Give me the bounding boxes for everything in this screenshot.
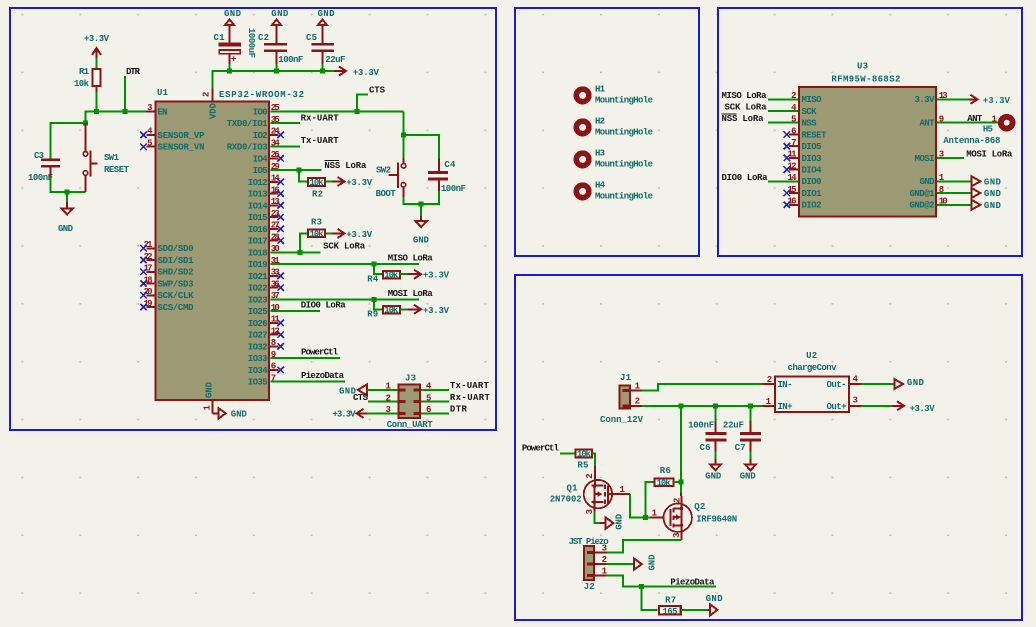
svg-text:MISO LoRa: MISO LoRa (722, 91, 768, 101)
svg-text:C1: C1 (214, 33, 226, 43)
svg-text:J1: J1 (620, 373, 632, 383)
svg-text:J2: J2 (584, 582, 595, 592)
wire C5 stub (321, 64, 323, 71)
junction (297, 250, 302, 255)
svg-text:GND: GND (318, 9, 336, 19)
IC U1 ESP32-WROOM-32 (155, 88, 304, 400)
junction (639, 584, 644, 589)
svg-text:22uF: 22uF (325, 55, 345, 65)
svg-text:4: 4 (853, 374, 859, 384)
svg-text:chargeConv: chargeConv (788, 363, 838, 373)
svg-text:IO4: IO4 (253, 154, 269, 164)
resistor R9 (367, 306, 400, 320)
ground GND below C7 (740, 452, 757, 482)
svg-text:MOSI LoRa: MOSI LoRa (966, 149, 1013, 159)
ground GND above C5 (318, 9, 336, 43)
ground GND at U3 pin10 (937, 200, 1001, 211)
svg-text:SCS/CMD: SCS/CMD (158, 303, 195, 313)
svg-text:RXD0/IO3: RXD0/IO3 (227, 143, 268, 153)
svg-text:+: + (231, 55, 236, 65)
svg-text:GND: GND (984, 201, 1002, 211)
junction (65, 190, 70, 195)
svg-text:1000uF: 1000uF (246, 28, 256, 58)
svg-text:ESP32-WROOM-32: ESP32-WROOM-32 (219, 90, 304, 100)
svg-text:1: 1 (620, 485, 626, 495)
U1 left no-connect pins (147, 135, 155, 307)
U1 right no-connect pins (270, 135, 278, 370)
capacitor C4 (428, 159, 466, 194)
resistor R6 (655, 466, 674, 489)
wire PowerCtl to R5 (560, 453, 575, 455)
junction (320, 69, 325, 74)
svg-text:100nF: 100nF (688, 421, 714, 431)
svg-text:PowerCtl: PowerCtl (522, 444, 560, 454)
svg-text:GND: GND (224, 9, 242, 19)
svg-text:IO0: IO0 (253, 107, 268, 117)
wire J3 pin6 DTR (421, 412, 449, 414)
svg-text:10k: 10k (577, 450, 592, 460)
svg-text:IO12: IO12 (248, 178, 268, 188)
U1 pin 1 GND (203, 401, 226, 418)
svg-text:IRF9640N: IRF9640N (696, 514, 737, 524)
svg-text:GND: GND (413, 236, 430, 246)
svg-text:C6: C6 (700, 443, 711, 453)
svg-text:PiezoData: PiezoData (301, 371, 345, 381)
resistor R2 (308, 178, 325, 199)
svg-text:H1: H1 (595, 84, 606, 94)
junction (748, 403, 753, 408)
junction (713, 403, 718, 408)
svg-text:GND: GND (706, 594, 724, 604)
svg-text:10k: 10k (384, 271, 399, 281)
svg-text:EN: EN (158, 107, 168, 117)
svg-text:RFM95W-868S2: RFM95W-868S2 (831, 75, 900, 85)
svg-text:DTR: DTR (450, 405, 468, 415)
wire Q1 drain to Q2 gate node (630, 494, 650, 517)
wire node up to R6 (646, 482, 654, 517)
wire to C3 (50, 123, 85, 159)
wire DTR (124, 76, 126, 111)
svg-text:2: 2 (602, 555, 607, 565)
svg-text:2: 2 (767, 375, 772, 385)
wire RXD0/IO3 (270, 146, 300, 148)
svg-text:1: 1 (766, 397, 772, 407)
wire J1 pin2 rail to U2 IN+ (642, 405, 763, 407)
wire to R4 (374, 264, 382, 274)
power +3.3V rail arrow (334, 67, 379, 79)
mounting hole H3 (576, 148, 653, 169)
svg-text:IO21: IO21 (248, 272, 269, 282)
svg-text:+3.3V: +3.3V (983, 96, 1011, 106)
svg-text:+3.3V: +3.3V (84, 34, 110, 44)
svg-text:MISO LoRa: MISO LoRa (388, 254, 434, 264)
svg-text:IN-: IN- (778, 380, 793, 390)
wire C1 stub (229, 64, 231, 71)
svg-text:GND@2: GND@2 (910, 201, 935, 211)
sheet border bottom box (515, 275, 1022, 620)
junction (83, 121, 88, 126)
sheet border right box (718, 8, 1022, 256)
wire EN net (97, 110, 147, 112)
ground GND below C6 (705, 452, 722, 482)
U1 pin 2 VDD (202, 89, 213, 101)
capacitor C3 (28, 151, 60, 183)
capacitor C7 (723, 406, 761, 453)
svg-text:2N7002: 2N7002 (550, 494, 582, 504)
wire SW2 top (403, 135, 405, 160)
junction (94, 109, 99, 114)
svg-text:MountingHole: MountingHole (595, 160, 653, 170)
wire IO25 DIO0 (270, 310, 320, 312)
svg-text:Out+: Out+ (827, 402, 847, 412)
svg-text:H2: H2 (595, 116, 605, 126)
svg-text:SHD/SD2: SHD/SD2 (158, 268, 194, 278)
svg-text:SDI/SD1: SDI/SD1 (158, 256, 195, 266)
svg-text:Out-: Out- (827, 380, 847, 390)
wire J3 pin2 CTS (368, 401, 398, 403)
junction (401, 132, 406, 137)
wire to C3/SW1 branch (86, 111, 97, 123)
svg-text:+3.3V: +3.3V (346, 230, 373, 240)
svg-text:R9: R9 (367, 310, 378, 320)
svg-text:SCK LoRa: SCK LoRa (725, 103, 768, 113)
wire TXD0/IO1 (270, 122, 300, 124)
svg-text:SENSOR_VN: SENSOR_VN (158, 143, 205, 153)
svg-text:R7: R7 (665, 596, 676, 606)
svg-text:IO35: IO35 (248, 378, 268, 388)
ground GND below SW2 (413, 204, 430, 246)
wire to R3 (300, 233, 307, 252)
svg-text:DIO5: DIO5 (802, 142, 822, 152)
wire J3 pin1 (367, 389, 397, 391)
svg-text:GND: GND (615, 513, 625, 530)
svg-text:IO18: IO18 (248, 248, 268, 258)
svg-text:IN+: IN+ (778, 402, 793, 412)
resistor R5 (576, 450, 593, 471)
wire J1 pin1 to U2 IN- (642, 384, 763, 391)
svg-text:C2: C2 (258, 33, 269, 43)
wire IO0 down to SW2/C4 (404, 111, 440, 160)
svg-text:+3.3V: +3.3V (346, 178, 373, 188)
svg-text:MOSI: MOSI (915, 154, 935, 164)
svg-text:R6: R6 (660, 466, 671, 476)
wire IO23 MOSI (270, 298, 419, 300)
svg-text:DIO0 LoRa: DIO0 LoRa (301, 300, 347, 310)
wire C3 bottom (50, 177, 85, 192)
power +3.3V at J3 pin3 (333, 409, 369, 420)
svg-text:MountingHole: MountingHole (595, 128, 653, 138)
svg-text:H4: H4 (595, 180, 606, 190)
svg-text:+3.3V: +3.3V (910, 404, 936, 414)
power +3.3V at R2 (325, 177, 372, 188)
svg-text:MountingHole: MountingHole (595, 96, 653, 106)
label NSS LoRa (722, 114, 765, 124)
junction (274, 69, 279, 74)
svg-text:C5: C5 (306, 33, 317, 43)
wire IO18 SCK (270, 251, 320, 253)
svg-text:TXD0/IO1: TXD0/IO1 (227, 119, 269, 129)
svg-text:H5: H5 (983, 124, 993, 134)
svg-text:IO25: IO25 (248, 307, 268, 317)
sheet border left box (10, 8, 496, 430)
svg-text:DIO3: DIO3 (802, 154, 822, 164)
svg-text:3: 3 (853, 396, 858, 406)
junction (643, 515, 648, 520)
svg-text:GND: GND (984, 178, 1002, 188)
svg-text:R1: R1 (79, 67, 90, 77)
wire +12V rail down to Q2 (680, 406, 682, 494)
svg-text:GND: GND (705, 472, 722, 482)
no-connect X marks U1 left (140, 132, 146, 311)
U1 left pin numbers (144, 103, 154, 309)
svg-text:R3: R3 (311, 217, 322, 227)
wire SCK (768, 110, 798, 112)
svg-text:DIO0: DIO0 (802, 177, 822, 187)
junction (123, 109, 128, 114)
wire J2 pin1 PiezoData (607, 576, 717, 587)
svg-text:IO2: IO2 (253, 131, 268, 141)
svg-text:Rx-UART: Rx-UART (301, 114, 340, 124)
power +3.3V at U2 Out+ (862, 401, 935, 414)
mounting hole H5 antenna (943, 115, 1012, 146)
svg-text:3: 3 (672, 532, 682, 537)
svg-text:IO14: IO14 (248, 201, 269, 211)
wire J3 pin4 (421, 389, 449, 391)
wire SW2/C4 bottom (403, 191, 439, 204)
wire IO19 MISO (270, 263, 419, 265)
resistor R4 (367, 271, 400, 285)
svg-text:10k: 10k (657, 478, 672, 488)
resistor R1 (74, 58, 101, 93)
svg-text:165: 165 (663, 607, 678, 617)
wire Q2 drain to J2 pin3 (607, 540, 682, 553)
power +3.3V top-left (84, 34, 110, 60)
svg-text:SENSOR_VP: SENSOR_VP (158, 131, 206, 141)
svg-text:1: 1 (652, 509, 658, 519)
junction (296, 168, 301, 173)
svg-text:100nF: 100nF (278, 55, 303, 65)
svg-text:100nF: 100nF (28, 173, 53, 183)
svg-text:GND: GND (271, 9, 289, 19)
wire J3 pin3 (367, 412, 397, 414)
svg-text:Q2: Q2 (694, 502, 705, 512)
svg-text:10k: 10k (384, 306, 399, 316)
mounting hole H4 (576, 180, 653, 201)
resistor R7 (659, 596, 681, 617)
svg-text:10k: 10k (310, 229, 325, 239)
svg-text:PiezoData: PiezoData (670, 577, 715, 587)
svg-text:PowerCtl: PowerCtl (301, 348, 339, 358)
U3 left pin numbers (788, 91, 798, 207)
mounting hole H2 (576, 116, 653, 137)
wire NSS (768, 122, 798, 124)
svg-text:NSS: NSS (802, 119, 818, 129)
ground GND above C1 (224, 9, 242, 43)
svg-text:MOSI LoRa: MOSI LoRa (388, 289, 434, 299)
svg-text:DTR: DTR (126, 67, 141, 77)
svg-text:1: 1 (635, 382, 641, 392)
power +3.3V at R4 (400, 270, 449, 281)
svg-text:SW1: SW1 (104, 153, 120, 163)
junction (679, 480, 684, 485)
ground GND at U2 Out- (862, 378, 925, 389)
wire to R2 (299, 170, 307, 181)
wire J3 pin5 (421, 401, 449, 403)
svg-text:U1: U1 (157, 88, 169, 98)
wire C2 stub (276, 64, 278, 71)
svg-text:IO15: IO15 (248, 213, 268, 223)
svg-text:MountingHole: MountingHole (595, 192, 653, 202)
svg-text:GND: GND (205, 381, 215, 398)
svg-text:Tx-UART: Tx-UART (450, 381, 490, 391)
power +3.3V at U3 (937, 95, 1010, 106)
wire R6 to source rail (674, 481, 682, 483)
junction (419, 201, 424, 206)
connector J3 Conn_UART (387, 373, 434, 430)
svg-text:GND: GND (648, 554, 658, 571)
svg-text:SCK/CLK: SCK/CLK (158, 291, 195, 301)
svg-text:10k: 10k (74, 79, 90, 89)
svg-text:U2: U2 (806, 351, 817, 361)
ground GND at U3 pin1 (937, 176, 1001, 187)
svg-text:GND: GND (907, 378, 925, 388)
capacitor C6 (688, 406, 726, 453)
svg-text:MISO: MISO (802, 95, 823, 105)
capacitor C1 1000uF polarized (214, 28, 257, 65)
svg-text:IO22: IO22 (248, 284, 268, 294)
svg-text:DIO2: DIO2 (802, 201, 822, 211)
U1 pin 3 EN stub (146, 110, 154, 112)
ground GND below C3 (58, 192, 74, 234)
sheet border middle box (515, 8, 699, 256)
svg-text:+3.3V: +3.3V (423, 271, 450, 281)
capacitor C5 22uF (306, 33, 345, 65)
svg-text:GND: GND (231, 409, 248, 419)
svg-text:IO27: IO27 (248, 331, 268, 341)
wire CTS stub (357, 95, 368, 112)
switch SW2 (376, 158, 406, 199)
svg-text:IO19: IO19 (248, 260, 268, 270)
svg-text:GND: GND (984, 189, 1002, 199)
svg-text:IO26: IO26 (248, 319, 268, 329)
no-connect X marks U3 (784, 131, 790, 208)
IC U2 chargeConv (762, 351, 862, 412)
IC U3 RFM95W-868S2 (799, 62, 936, 217)
wire IO33 PowerCtl (270, 357, 340, 359)
svg-text:DIO4: DIO4 (802, 166, 823, 176)
svg-text:22uF: 22uF (723, 421, 744, 431)
capacitor C2 100nF (258, 33, 303, 65)
svg-text:IO34: IO34 (248, 366, 269, 376)
wire IO35 PiezoData (270, 381, 345, 383)
label NSS LoRa (324, 161, 367, 171)
svg-text:U3: U3 (857, 62, 868, 72)
svg-text:DIO1: DIO1 (802, 189, 823, 199)
svg-text:NSS LoRa: NSS LoRa (324, 161, 367, 171)
svg-text:VDD: VDD (209, 102, 219, 119)
svg-text:3: 3 (602, 544, 607, 554)
U1 right pin numbers (271, 103, 281, 383)
svg-text:BOOT: BOOT (376, 189, 397, 199)
junction (355, 109, 360, 114)
U3 left no-connect pins (789, 135, 798, 205)
svg-text:ANT: ANT (967, 114, 983, 124)
U3 right pin numbers (939, 91, 948, 207)
svg-text:IO17: IO17 (248, 237, 268, 247)
svg-text:2: 2 (202, 92, 212, 97)
svg-text:2: 2 (635, 397, 640, 407)
svg-text:2: 2 (673, 498, 683, 503)
svg-text:R5: R5 (577, 461, 588, 471)
svg-text:+3.3V: +3.3V (423, 306, 450, 316)
svg-text:IO23: IO23 (248, 295, 268, 305)
svg-text:RESET: RESET (802, 130, 828, 140)
svg-text:R2: R2 (312, 189, 323, 199)
svg-text:+3.3V: +3.3V (353, 68, 380, 78)
wire down to R7 (642, 587, 658, 610)
junction (678, 403, 683, 408)
svg-text:SW2: SW2 (376, 166, 391, 176)
svg-text:R4: R4 (367, 274, 379, 284)
svg-text:DIO0 LoRa: DIO0 LoRa (722, 173, 769, 183)
svg-text:IO5: IO5 (253, 166, 268, 176)
ground GND at J3 pin1 (339, 384, 367, 396)
svg-text:1: 1 (992, 115, 998, 125)
junction (372, 297, 377, 302)
svg-text:IO16: IO16 (248, 225, 268, 235)
svg-text:10k: 10k (310, 178, 325, 188)
svg-text:Q1: Q1 (567, 483, 579, 493)
svg-text:NSS LoRa: NSS LoRa (722, 114, 765, 124)
transistor Q2 IRF9640N (650, 493, 737, 540)
ground GND at U3 pin8 (937, 188, 1001, 199)
no-connect X marks U1 right (278, 132, 284, 373)
wire R1 to EN rail (96, 92, 98, 111)
wire ANT (937, 122, 999, 124)
svg-text:100nF: 100nF (441, 184, 466, 194)
svg-text:RESET: RESET (104, 165, 130, 175)
svg-text:Tx-UART: Tx-UART (301, 136, 340, 146)
svg-text:2: 2 (585, 473, 595, 478)
power +3.3V at R3 (325, 229, 372, 240)
wire IO5 NSS (270, 169, 321, 171)
svg-text:ANT: ANT (920, 119, 936, 129)
svg-text:Conn_12V: Conn_12V (600, 415, 644, 425)
power +3.3V at R9 (400, 305, 449, 316)
junction (372, 262, 377, 267)
ground GND at Q1 source (595, 512, 625, 530)
ground GND at R7 (681, 594, 723, 616)
svg-text:J3: J3 (405, 373, 416, 383)
wire DIO0 (768, 180, 798, 182)
svg-text:CTS: CTS (353, 393, 369, 403)
wire R5 to Q1 (592, 454, 595, 468)
svg-text:IO32: IO32 (248, 342, 268, 352)
wire +3.3V rail (212, 71, 336, 90)
connector J2 JST Piezo (569, 537, 609, 592)
svg-text:SCK: SCK (802, 107, 818, 117)
wire IO0 to CTS/SW2 (270, 110, 403, 112)
svg-text:3.3V: 3.3V (915, 95, 936, 105)
svg-text:CTS: CTS (369, 86, 386, 96)
J3 pin numbers (386, 382, 433, 416)
svg-text:SWP/SD3: SWP/SD3 (158, 279, 194, 289)
svg-text:SDO/SD0: SDO/SD0 (158, 244, 194, 254)
junction (227, 69, 232, 74)
svg-text:IO13: IO13 (248, 190, 268, 200)
svg-text:GND: GND (740, 472, 757, 482)
resistor R3 (308, 217, 325, 239)
